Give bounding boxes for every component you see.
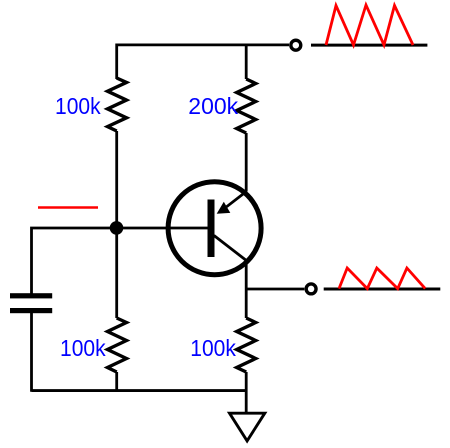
resistor R2 200k (top right) — [237, 79, 256, 133]
waveform sawtooth (top right, red) — [326, 5, 413, 45]
wire 200k bottom to emitter — [245, 133, 248, 192]
waveform sawtooth (middle right, red) — [339, 268, 425, 289]
wire bottom rail — [32, 389, 247, 392]
wire R4 bottom to ground — [245, 372, 248, 413]
resistor R1 100k (top left) — [108, 78, 127, 131]
wire output line (middle right) — [324, 288, 441, 291]
node A (base junction dot) — [110, 221, 124, 235]
transistor Q1 base bar — [208, 200, 215, 258]
wire capacitor bottom to ground rail — [30, 313, 33, 392]
transistor Q1 emitter arrowhead — [217, 202, 231, 214]
node marker red line (base bias annotation) — [38, 206, 98, 209]
wire R3 bottom to rail — [115, 372, 118, 390]
wire collector lead down — [245, 262, 248, 318]
capacitor C1 plate top — [10, 293, 52, 298]
terminal open circle (top) — [291, 40, 301, 50]
wire output stub (collector to terminal) — [246, 288, 304, 291]
transistor Q1 collector diagonal — [214, 236, 247, 262]
wire 200k drop from top rail — [245, 45, 248, 79]
ground — [230, 413, 265, 441]
svg-text:100k: 100k — [190, 335, 236, 361]
capacitor C1 plate bottom — [10, 308, 52, 313]
wire top rail — [117, 45, 289, 79]
svg-text:100k: 100k — [60, 335, 106, 361]
svg-text:200k: 200k — [188, 93, 238, 119]
transistor Q1 emitter diagonal — [227, 192, 247, 207]
svg-text:100k: 100k — [55, 93, 101, 119]
terminal open circle (output, middle) — [306, 284, 316, 294]
wire output line (top right) — [311, 44, 427, 47]
resistor R4 100k (bottom right) — [237, 318, 256, 372]
transistor Q1 circle (PNP) — [168, 182, 261, 275]
wire left branch vertical (R1 bottom to R3 top) — [115, 131, 118, 318]
wire base (node to transistor, and left to capacitor branch) — [32, 228, 209, 294]
resistor R3 100k (bottom left) — [108, 318, 127, 372]
